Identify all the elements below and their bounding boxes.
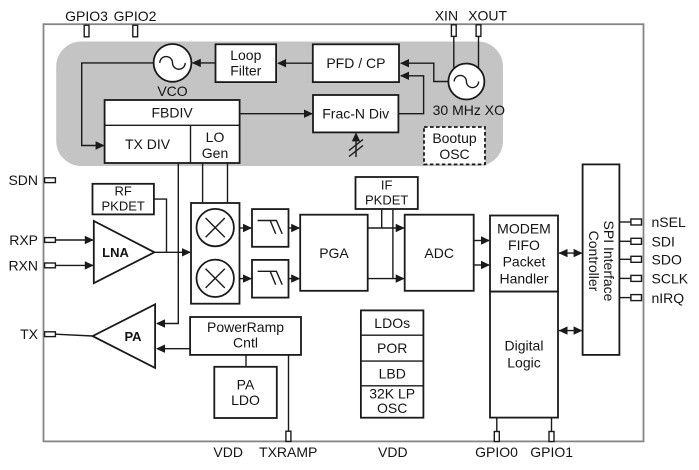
- pin XOUT: [468, 8, 507, 37]
- svg-text:Frac-N Div: Frac-N Div: [322, 106, 389, 122]
- svg-text:Controller: Controller: [586, 231, 602, 292]
- synthesizer gray region: [56, 42, 503, 167]
- pin SDN: [8, 172, 55, 188]
- svg-text:nIRQ: nIRQ: [652, 290, 685, 306]
- Digital Logic block: [490, 292, 558, 418]
- svg-text:PA: PA: [237, 377, 255, 393]
- svg-text:RF: RF: [115, 184, 132, 199]
- svg-text:GPIO1: GPIO1: [530, 444, 573, 460]
- wire TX pin to PA: [55, 334, 92, 336]
- svg-text:PKDET: PKDET: [365, 192, 408, 207]
- PFD / CP block: [313, 44, 399, 82]
- svg-text:Cntl: Cntl: [233, 335, 258, 351]
- svg-text:VDD: VDD: [378, 444, 408, 460]
- LNA amplifier: [94, 221, 155, 283]
- svg-text:RXP: RXP: [9, 232, 38, 248]
- wire mixer to filter I: [240, 224, 253, 232]
- wire Loop Filter to VCO: [192, 59, 216, 67]
- svg-text:PKDET: PKDET: [102, 199, 145, 214]
- wire RF PKDET tap: [154, 199, 167, 252]
- svg-text:Bootup: Bootup: [432, 130, 477, 146]
- svg-text:SPI Interface: SPI Interface: [601, 221, 617, 302]
- PGA block: [300, 215, 368, 291]
- svg-text:OSC: OSC: [377, 400, 407, 416]
- wire filter to PGA Q: [289, 274, 301, 282]
- pin SCLK: [631, 271, 689, 287]
- svg-text:VCO: VCO: [157, 83, 187, 99]
- svg-text:XIN: XIN: [435, 8, 458, 24]
- svg-text:PFD / CP: PFD / CP: [326, 55, 385, 71]
- svg-text:Handler: Handler: [499, 270, 548, 286]
- svg-text:Logic: Logic: [507, 355, 540, 371]
- svg-text:GPIO3: GPIO3: [65, 8, 108, 24]
- PA LDO block: [214, 367, 276, 418]
- wire Frac-N Div to PFD/CP: [398, 72, 423, 114]
- RF PKDET block: [93, 184, 154, 215]
- svg-text:GPIO0: GPIO0: [475, 444, 518, 460]
- svg-text:nSEL: nSEL: [652, 214, 686, 230]
- svg-text:ADC: ADC: [424, 245, 454, 261]
- FBDIV / TX DIV / LO Gen block: [105, 100, 240, 163]
- svg-text:OSC: OSC: [439, 146, 469, 162]
- wire XOUT to XO: [478, 37, 480, 70]
- svg-text:Loop: Loop: [230, 47, 261, 63]
- wire LO Gen to mixer Q: [227, 163, 229, 203]
- wire VCO feedback to TX DIV: [82, 63, 154, 150]
- svg-text:FIFO: FIFO: [508, 237, 540, 253]
- chip outer border: [44, 24, 644, 441]
- wire SPI to SCLK: [619, 277, 631, 279]
- PowerRamp Cntl block: [190, 317, 301, 355]
- mixer block: [191, 203, 240, 304]
- wire SPI to nIRQ: [619, 297, 631, 299]
- LDOs POR LBD 32K stack: [361, 310, 424, 417]
- pin GPIO0: [475, 432, 518, 461]
- svg-text:MODEM: MODEM: [497, 220, 551, 236]
- wire SPI to nSEL: [619, 221, 631, 223]
- svg-text:PA: PA: [124, 329, 142, 344]
- svg-text:POR: POR: [377, 340, 407, 356]
- svg-text:SCLK: SCLK: [652, 271, 689, 287]
- svg-text:LDOs: LDOs: [374, 315, 410, 331]
- wire XIN to XO: [453, 37, 455, 68]
- pin SDI: [631, 234, 675, 250]
- svg-text:PowerRamp: PowerRamp: [207, 319, 284, 335]
- wire Digital Logic to GPIO1: [551, 418, 553, 432]
- svg-text:LDO: LDO: [231, 392, 260, 408]
- svg-text:TX: TX: [20, 326, 39, 342]
- wire PGA to ADC I: [368, 224, 405, 232]
- svg-text:TX DIV: TX DIV: [125, 136, 171, 152]
- wire IF PKDET stub I: [381, 209, 383, 228]
- wire XO to PFD/CP: [400, 59, 448, 82]
- wire IF PKDET stub Q: [392, 209, 394, 279]
- wire LO Gen to mixer I: [202, 163, 204, 203]
- wire PowerRamp to TXRAMP pin: [288, 355, 290, 432]
- svg-text:PGA: PGA: [319, 245, 349, 261]
- pin GPIO1: [530, 432, 573, 461]
- svg-text:Packet: Packet: [503, 254, 546, 270]
- 30 MHz XO oscillator: [433, 64, 505, 119]
- pin XIN: [435, 8, 458, 37]
- wire TX DIV to PA: [156, 163, 178, 328]
- PA amplifier: [93, 304, 156, 368]
- svg-text:Filter: Filter: [230, 62, 261, 78]
- svg-text:SDO: SDO: [652, 252, 682, 268]
- svg-text:SDN: SDN: [8, 172, 38, 188]
- svg-text:RXN: RXN: [8, 257, 38, 273]
- pin GPIO2: [114, 8, 157, 37]
- pin TXRAMP: [259, 431, 317, 460]
- wire ADC to MODEM 1: [474, 236, 490, 244]
- svg-text:LBD: LBD: [379, 366, 406, 382]
- VCO oscillator: [154, 44, 192, 99]
- ADC block: [405, 215, 474, 291]
- svg-text:SDI: SDI: [652, 234, 675, 250]
- pin nSEL: [631, 214, 686, 230]
- pin SDO: [631, 252, 682, 268]
- wire RXN to LNA: [55, 261, 93, 269]
- svg-text:LO: LO: [206, 129, 225, 145]
- pin RXP: [9, 232, 55, 248]
- IF filter I: [252, 209, 289, 247]
- svg-text:GPIO2: GPIO2: [114, 8, 157, 24]
- pin TX: [20, 326, 55, 342]
- svg-text:VDD: VDD: [213, 444, 243, 460]
- wire PFD/CP to Loop Filter: [277, 59, 313, 67]
- IF PKDET block: [356, 177, 418, 209]
- wire ADC to MODEM 2: [474, 261, 490, 269]
- wire Digital Logic to GPIO0: [496, 418, 498, 432]
- Frac-N Div block: [313, 95, 398, 132]
- wire LNA to mixers: [154, 248, 191, 256]
- svg-text:IF: IF: [381, 177, 393, 192]
- svg-text:TXRAMP: TXRAMP: [259, 444, 317, 460]
- svg-text:LNA: LNA: [102, 245, 129, 260]
- Bootup OSC block: [424, 127, 485, 164]
- svg-text:XOUT: XOUT: [468, 8, 507, 24]
- loop filter U-LF: [216, 44, 277, 82]
- pin GPIO3: [65, 8, 108, 37]
- wire PowerRamp to PA LDO: [245, 355, 247, 367]
- IF filter Q: [252, 260, 289, 298]
- svg-text:32K LP: 32K LP: [369, 385, 415, 401]
- pin nIRQ: [631, 290, 684, 306]
- svg-text:30 MHz XO: 30 MHz XO: [433, 102, 505, 118]
- svg-text:Digital: Digital: [505, 337, 544, 353]
- wire FBDIV to Frac-N Div: [240, 110, 313, 118]
- wire SPI to SDO: [619, 258, 631, 260]
- svg-text:Gen: Gen: [202, 145, 228, 161]
- wire PGA to ADC Q: [368, 274, 405, 282]
- MODEM FIFO Packet Handler block: [490, 216, 558, 292]
- wire filter to PGA I: [289, 224, 301, 232]
- SPI Interface Controller block: [583, 164, 620, 355]
- wire PowerRamp to PA: [156, 345, 190, 353]
- wire RXP to LNA: [55, 236, 93, 244]
- wire Digital Logic to SPI double arrow: [559, 326, 583, 334]
- wire mixer to filter Q: [240, 274, 253, 282]
- svg-text:FBDIV: FBDIV: [151, 105, 193, 121]
- wire modulation into Frac-N Div: [349, 132, 363, 157]
- pin RXN: [8, 257, 55, 273]
- wire SPI to SDI: [619, 240, 631, 242]
- wire MODEM to SPI double arrow: [559, 249, 583, 257]
